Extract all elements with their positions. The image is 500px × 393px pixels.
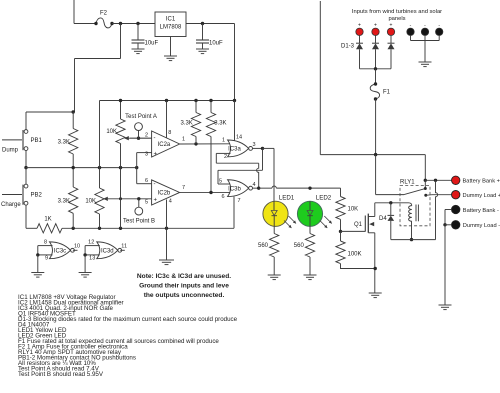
svg-text:14: 14 [236,134,242,140]
svg-text:8: 8 [168,130,171,136]
svg-text:Test Point B should read 5.95V: Test Point B should read 5.95V [18,371,104,378]
svg-text:5: 5 [145,200,148,206]
svg-text:10: 10 [74,243,80,249]
svg-text:IC3d: IC3d [101,249,114,255]
svg-text:IC2b: IC2b [158,191,171,197]
svg-text:4: 4 [169,198,172,204]
svg-text:F1: F1 [383,90,391,96]
svg-text:panels: panels [388,16,405,22]
svg-text:the outputs unconnected.: the outputs unconnected. [144,292,225,299]
svg-text:Inputs from wind turbines and: Inputs from wind turbines and solar [352,9,442,15]
svg-text:D1-3: D1-3 [341,44,355,50]
svg-text:1: 1 [222,138,225,144]
svg-text:PB1: PB1 [31,138,43,144]
svg-text:6: 6 [145,178,148,184]
svg-text:7: 7 [182,185,185,191]
svg-text:Charge: Charge [1,202,21,208]
svg-text:IC1: IC1 [166,17,176,23]
svg-text:LED2: LED2 [316,194,332,201]
svg-text:-: - [154,182,156,188]
svg-text:IC2a: IC2a [158,142,171,148]
svg-text:560: 560 [258,243,269,249]
svg-text:3: 3 [253,142,256,148]
svg-text:IC3b: IC3b [228,186,241,192]
svg-text:-: - [154,136,156,142]
svg-text:Dump: Dump [2,148,19,154]
svg-text:10K: 10K [348,207,359,213]
svg-text:+: + [390,23,393,29]
svg-text:3.3K: 3.3K [58,199,70,205]
svg-text:1K: 1K [44,217,51,223]
svg-text:Ground their inputs and leve: Ground their inputs and leve [139,283,229,290]
svg-text:560: 560 [294,243,305,249]
svg-text:12: 12 [88,240,94,246]
svg-text:7: 7 [238,198,241,204]
svg-text:11: 11 [121,243,127,249]
svg-text:IC3a: IC3a [228,147,241,153]
svg-text:Battery Bank -: Battery Bank - [463,208,499,214]
svg-text:8: 8 [44,240,47,246]
svg-text:10uF: 10uF [145,41,159,47]
svg-text:Q1: Q1 [354,222,363,228]
svg-text:10K: 10K [85,199,96,205]
svg-text:+: + [374,23,377,29]
svg-text:Dummy Load -: Dummy Load - [463,223,500,229]
svg-text:+: + [154,198,158,204]
svg-text:3.3K: 3.3K [180,121,192,127]
svg-text:4: 4 [253,182,256,188]
svg-text:F2: F2 [100,11,108,17]
svg-text:IC3c: IC3c [54,249,66,255]
svg-text:PB2: PB2 [31,193,43,199]
svg-text:Test Point B: Test Point B [123,219,155,225]
svg-text:RLY1: RLY1 [400,179,415,185]
svg-text:LM7808: LM7808 [160,25,182,31]
svg-text:Battery Bank +: Battery Bank + [463,179,500,185]
svg-text:Note: IC3c & IC3d are unused.: Note: IC3c & IC3d are unused. [137,273,231,280]
svg-text:3: 3 [145,151,148,157]
svg-text:1: 1 [182,137,185,143]
svg-text:D1-3 Blocking diodes rated for: D1-3 Blocking diodes rated for the maxim… [18,316,238,323]
svg-text:9: 9 [45,256,48,262]
svg-text:3.3K: 3.3K [214,121,226,127]
svg-text:2: 2 [145,132,148,138]
svg-text:5: 5 [219,178,222,184]
svg-text:13: 13 [89,256,95,262]
svg-text:2: 2 [224,154,227,160]
svg-text:+: + [154,152,158,158]
svg-text:10uF: 10uF [209,41,223,47]
svg-text:Dummy Load +: Dummy Load + [463,193,500,199]
svg-text:100K: 100K [348,252,362,258]
svg-text:+: + [358,23,361,29]
svg-text:Test Point A: Test Point A [125,114,157,120]
svg-text:LED1: LED1 [279,194,295,201]
svg-text:6: 6 [221,194,224,200]
svg-text:10K: 10K [106,129,117,135]
svg-text:D4: D4 [379,216,387,222]
svg-text:3.3K: 3.3K [58,140,70,146]
